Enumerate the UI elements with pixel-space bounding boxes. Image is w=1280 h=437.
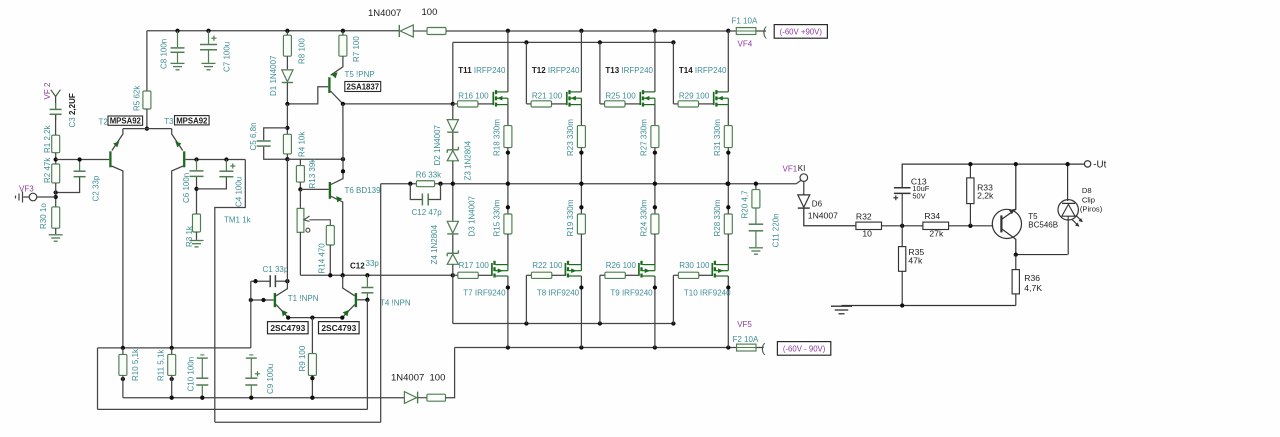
svg-text:D2 1N4007: D2 1N4007 [433,124,442,165]
wire T5 base link [287,87,328,104]
ground below C8 [171,63,185,69]
svg-text:47k: 47k [908,256,923,266]
label C6 100n [182,173,191,203]
transistor T6 BD139 [330,159,343,275]
resistor R21 100 [526,101,551,107]
ground below C11 [749,248,763,254]
resistor R23 330m [577,126,585,148]
trimmer TM1 1k [297,189,330,275]
label T8 IRF9240 [537,289,580,298]
label C12 47p [412,208,443,217]
label T11 IRFP240 [458,66,506,75]
svg-text:R25 100: R25 100 [605,92,636,101]
svg-text:(-60V - 90V): (-60V - 90V) [783,344,826,353]
label D8 [1082,186,1092,195]
svg-text:T4 !NPN: T4 !NPN [380,298,411,307]
label R23 330m [566,119,575,156]
wire T3 base line [185,157,245,161]
svg-text:T3: T3 [164,117,174,126]
mosfet T11 IRFP240 [478,90,508,107]
label T7 IRF9240 [463,289,506,298]
transistor T4 2SC4793 (NPN, mirrored) [342,275,356,317]
label R9 100 [298,345,307,371]
capacitor C11 220n [749,208,764,247]
resistor R13 39k [296,159,304,182]
wire output rail [381,183,797,185]
svg-text:Z4 1N2804: Z4 1N2804 [430,224,439,264]
label R3 1k [185,225,194,247]
svg-text:F2 10A: F2 10A [733,335,759,344]
capacitor C3 [50,103,62,120]
wire left drop to line B [97,348,99,410]
fuse F1 10A [728,28,766,35]
svg-text:C8 100n: C8 100n [160,39,169,69]
wire drain T13 [654,31,656,92]
transistor T5 BC546B [992,162,1021,255]
label R18 330m [493,119,502,156]
wire source T14 to R31 [727,105,729,126]
label R2 47k [43,157,52,183]
resistor R16 100 [453,101,478,107]
resistor R30 100 [673,272,698,278]
svg-text:Z3 1N2804: Z3 1N2804 [464,140,473,180]
label 50V [912,191,925,200]
label VF1 [783,165,798,174]
wire line C [123,396,405,400]
resistor R7 100 [339,31,347,56]
svg-text:VF3: VF3 [19,185,34,194]
svg-text:R9 100: R9 100 [298,345,307,371]
svg-text:R16 100: R16 100 [458,92,489,101]
transistor T5 2SA1837 (PNP) [329,56,343,104]
label R19 330m [566,199,575,236]
label KI [798,164,806,173]
wire T1 base line [249,298,274,302]
label T14 IRFP240 [679,66,727,75]
mosfet T7 IRF9240 [478,261,508,278]
label 4,7K [1024,283,1042,293]
label R16 100 [458,92,489,101]
svg-text:R29 100: R29 100 [679,92,710,101]
label R1 2,2k [43,124,52,153]
svg-text:T9 IRF9240: T9 IRF9240 [610,289,653,298]
svg-text:C5 6,8n: C5 6,8n [249,122,258,150]
label C13 [911,176,927,186]
label R26 100 [606,261,637,270]
svg-text:VF4: VF4 [738,40,753,49]
resistor R3 1k [193,214,201,232]
label R7 100 [352,36,361,62]
resistor R25 100 [600,101,625,107]
svg-text:2SA1837: 2SA1837 [347,83,380,92]
capacitor C4 100u [197,160,236,189]
label T9 IRF9240 [610,289,653,298]
wire drain T14 [727,31,729,92]
wire riser lineA to T1 base [250,281,252,348]
svg-text:C3 2,2UF: C3 2,2UF [68,93,77,127]
capacitor C12 33p (T4 base) [361,275,373,300]
label R27 330m [640,119,649,156]
svg-text:T11 IRFP240: T11 IRFP240 [458,66,506,75]
wire emitter rail [123,128,172,130]
label T13 IRFP240 [605,66,653,75]
node C6/C4 bottom [194,187,198,191]
terminal -Ut [1084,159,1106,170]
box MPSA92 T3 [175,116,210,126]
svg-text:27k: 27k [929,228,944,238]
diode D3 1N4007 [447,184,458,254]
wire T2 base line [56,159,109,161]
svg-text:BC546B: BC546B [1028,220,1058,229]
svg-text:100: 100 [430,373,446,384]
wire drain T10 to -rail [726,276,730,348]
svg-text:C10 100n: C10 100n [187,357,196,392]
capacitor C1 33p [251,275,290,287]
svg-text:R28 330m: R28 330m [713,199,722,236]
svg-text:F1 10A: F1 10A [732,17,758,26]
svg-text:4,7K: 4,7K [1024,283,1042,293]
label R25 100 [605,92,636,101]
label F1 10A [732,17,758,26]
wire +rail left segment [147,30,399,32]
svg-text:VF5: VF5 [737,320,752,329]
resistor R19 330m [577,214,585,234]
terminal VF3 [29,193,56,201]
label 10uF [912,184,929,193]
svg-text:R1 2,2k: R1 2,2k [43,124,52,153]
label R33 [977,182,993,192]
label R34 [924,211,940,221]
svg-text:R11 5,1k: R11 5,1k [156,349,165,381]
resistor R34 27k [923,222,949,229]
wire line E [215,184,381,423]
wire R18 through output rail [506,148,510,214]
label D3 1N4007 [468,195,477,236]
label R17 100 [459,261,490,270]
label R29 100 [679,92,710,101]
label R13 39k [308,158,317,189]
junction dots on +rail [175,29,730,33]
wire R5 to emitter rail [145,109,149,131]
wire gate feed T14 [672,42,674,104]
wire gate feed T12 [525,42,527,104]
label R30 100 [679,261,710,270]
label C11 220n [772,213,781,247]
svg-text:1N4007: 1N4007 [808,211,838,221]
svg-text:R24 330m: R24 330m [640,199,649,236]
wire drain T8 to -rail [579,276,583,348]
label R14 470 [318,243,327,274]
svg-text:R22 100: R22 100 [532,261,563,270]
svg-text:KI: KI [798,164,806,173]
resistor 100 in +rail [427,28,446,35]
label 10 [862,228,872,238]
svg-text:2,2k: 2,2k [977,191,994,201]
node C5 top [285,104,289,134]
svg-text:R23 330m: R23 330m [566,119,575,156]
svg-text:T8 IRF9240: T8 IRF9240 [537,289,580,298]
svg-text:R30 100: R30 100 [679,261,710,270]
wire R15 to source T7 [507,234,509,265]
svg-text:C2 33p: C2 33p [92,175,101,201]
diode Z3 1N2804 (zener) [447,147,458,184]
wire R32 to node [882,224,923,228]
supply box (-60V - 90V) [777,342,830,356]
label VF 2 [43,82,52,99]
svg-text:R19 330m: R19 330m [566,199,575,236]
capacitor C5 6,8n [257,128,288,159]
mosfet T10 IRF9240 [699,261,729,278]
wire gate feed T13 [599,42,601,104]
svg-text:D8: D8 [1082,186,1092,195]
label D2 1N4007 [433,124,442,165]
label T12 IRFP240 [532,66,580,75]
resistor R15 330m [504,214,512,234]
wire rail2 gate-feed rail [453,42,674,104]
transistor T1 2SC4793 (NPN) [275,159,288,317]
svg-text:T12 IRFP240: T12 IRFP240 [532,66,580,75]
svg-text:VF1: VF1 [783,165,798,174]
svg-text:50V: 50V [912,191,925,200]
svg-text:D3 1N4007: D3 1N4007 [468,195,477,236]
label C9 100u [266,364,275,394]
resistor R33 2,2k [967,162,974,226]
label R28 330m [713,199,722,236]
wire drain T9 to -rail [653,276,657,348]
svg-text:(-60V +90V): (-60V +90V) [780,27,823,36]
wire source T11 to R18 [507,105,509,126]
node output rail dot [725,182,729,186]
svg-text:D6: D6 [812,199,823,208]
resistor R1 2,2k [52,135,60,153]
label T5 !PNP [345,70,375,79]
led D8 Clip [1058,162,1083,255]
label 1N4007 D6 [808,211,838,221]
label R36 [1024,273,1040,283]
label C3 2,2UF [68,93,77,127]
wire R2 bottom node [54,183,58,207]
label 47k [908,256,923,266]
svg-text:R5 62k: R5 62k [133,85,142,111]
resistor R5 62k [143,91,151,109]
capacitor C13 10uF 50V [893,164,1084,226]
svg-text:1N4007: 1N4007 [368,8,401,19]
supply box (-60V +90V) [774,25,827,39]
svg-text:C7 100u: C7 100u [223,42,232,72]
capacitor C12 47p [410,184,440,206]
label Z3 1N2804 [464,140,473,180]
label C10 100n [187,357,196,392]
ground below R30 [49,228,63,241]
label Z4 1N2804 [430,224,439,264]
resistor R8 100 [283,31,291,56]
label TM1 1k [224,215,252,224]
svg-text:T6 BD139: T6 BD139 [345,186,382,195]
label R24 330m [640,199,649,236]
terminal arc F1 [763,24,768,39]
terminal VF2 (Y symbol) [51,90,61,109]
box 2SA1837 [345,82,381,92]
resistor R11 5,1k [168,348,176,398]
label VF4 [738,40,753,49]
svg-text:C12 47p: C12 47p [412,208,443,217]
label R11 5,1k [156,349,165,381]
mosfet T12 IRFP240 [552,90,582,107]
box 2SC4793 T4 [319,322,360,334]
wire emitter node to D8 [1014,252,1068,256]
label C4 100u [235,177,244,207]
svg-text:Clip: Clip [1082,196,1095,205]
wire P gate rail [453,275,676,325]
node R1/R2/base [54,153,58,164]
wire rail corner to R5 [146,31,148,91]
svg-text:10: 10 [862,228,872,238]
resistor R18 330m [504,126,512,148]
wire C3 to R1 [55,115,57,135]
resistor R22 100 [526,272,551,278]
svg-text:R10 5,1k: R10 5,1k [131,348,140,381]
svg-text:2SC4793: 2SC4793 [321,323,356,333]
diode D6 1N4007 [798,181,856,225]
VF3 chassis symbol [16,192,30,203]
label T3 [164,117,174,126]
resistor R29 100 [673,101,698,107]
svg-text:T14 IRFP240: T14 IRFP240 [679,66,727,75]
resistor R31 330m [724,126,732,148]
svg-text:R2 47k: R2 47k [43,157,52,183]
svg-text:(: ( [763,24,768,39]
svg-text:C4 100u: C4 100u [235,177,244,207]
terminal VF1 KI [796,174,807,184]
wire line B [98,408,368,410]
label C7 100u [223,42,232,72]
label (Piros) [1080,204,1103,213]
diode 1N4007 in +rail (pointing left) [399,25,427,37]
label VF3 [19,185,34,194]
label BC546B [1028,220,1058,229]
label R21 100 [532,92,563,101]
wire R13 to T6 base [298,182,328,191]
label Clip [1082,196,1095,205]
svg-text:T5 !PNP: T5 !PNP [345,70,375,79]
capacitor C7 100u [200,31,217,63]
capacitor C9 100u [245,355,260,398]
svg-text:R18 330m: R18 330m [493,119,502,156]
label 100 top [422,7,438,18]
resistor R27 330m [651,126,659,148]
svg-text:(Piros): (Piros) [1080,204,1103,213]
svg-text:T7 IRF9240: T7 IRF9240 [463,289,506,298]
label 27k [929,228,944,238]
resistor R36 4,7K [1012,255,1019,306]
svg-text:R17 100: R17 100 [459,261,490,270]
svg-text:T10 IRF9240: T10 IRF9240 [684,289,731,298]
label R31 330m [713,119,722,156]
svg-text:MPSA92: MPSA92 [110,117,142,126]
svg-text:T2: T2 [99,117,109,126]
wire N gate line [341,102,455,106]
box MPSA92 T2 [108,116,143,126]
node D1 bottom [285,102,289,106]
svg-text:R14 470: R14 470 [318,243,327,274]
svg-text:R30 1o: R30 1o [39,203,48,229]
svg-text:R8 100: R8 100 [298,38,307,64]
label 100 bottom [430,373,446,384]
resistor R35 47k [899,226,906,306]
svg-text:R31 330m: R31 330m [713,119,722,156]
label 1N4007 bottom [391,373,424,384]
svg-text:MPSA92: MPSA92 [176,116,208,125]
wire R34 to T5 base [949,224,994,228]
wire feedback staircase [215,160,246,423]
resistor R17 100 [453,272,478,278]
svg-text:D1 1N4007: D1 1N4007 [269,55,278,96]
wire R28 to source T10 [727,234,729,265]
resistor R30 1o [52,207,60,228]
wire to bottom rail [446,348,455,398]
svg-text:T13 IRFP240: T13 IRFP240 [605,66,653,75]
mosfet T9 IRF9240 [625,261,655,278]
label T5 [1028,212,1038,221]
wire R4 bottom line [285,154,345,161]
svg-text:-Ut: -Ut [1093,159,1106,170]
wire drain T11 [507,31,509,92]
resistor R2 47k [52,164,60,183]
wire R27 through output rail [653,148,657,214]
wire gate feed T10 [672,275,674,323]
wire line A (R10/R11 top) [98,346,251,350]
label R4 10k [298,131,307,157]
label T6 BD139 [345,186,382,195]
svg-text:R4 10k: R4 10k [298,131,307,157]
resistor R24 330m [651,214,659,234]
wire T6 collector column [341,104,345,174]
wire R23 through output rail [579,148,583,214]
svg-text:C12: C12 [350,261,365,270]
wire T4 base [357,298,369,410]
svg-text:R21 100: R21 100 [532,92,563,101]
mosfet T13 IRFP240 [625,90,655,107]
ground clip circuit [831,306,852,314]
svg-text:R7 100: R7 100 [352,36,361,62]
label R8 100 [298,38,307,64]
label VF5 [737,320,752,329]
label C12 33p [350,259,379,270]
transistor T2 MPSA92 [110,129,123,348]
resistor R26 100 [600,272,625,278]
capacitor C10 100n [196,355,208,398]
label F2 10A [733,335,759,344]
label 2,2k [977,191,994,201]
label D6 [812,199,823,208]
label R22 100 [532,261,563,270]
wire R19 to source T8 [580,234,582,265]
svg-text:33p: 33p [366,259,380,268]
resistor R14 470 [326,226,334,276]
capacitor C8 100n [171,31,185,63]
label C2 33p [92,175,101,201]
svg-text:C1 33p: C1 33p [263,265,289,274]
label D1 1N4007 [269,55,278,96]
wire source T12 to R23 [580,105,582,126]
resistor R28 330m [724,214,732,234]
label C8 100n [160,39,169,69]
wire R31 through output rail [726,148,730,214]
resistor R6 33k [408,181,443,187]
svg-text:R26 100: R26 100 [606,261,637,270]
svg-text:R32: R32 [856,211,872,221]
junction dots rail2 [524,40,675,44]
